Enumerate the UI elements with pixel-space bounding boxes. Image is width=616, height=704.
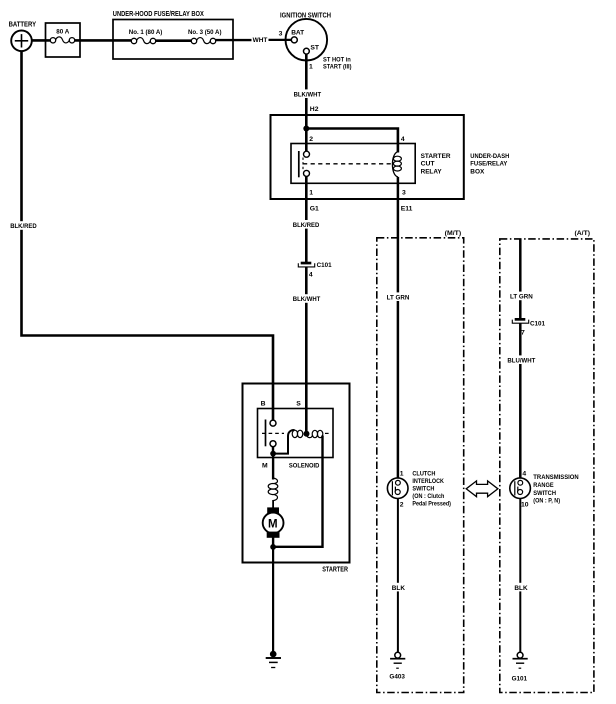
- svg-text:M: M: [262, 463, 268, 470]
- svg-text:G403: G403: [389, 674, 405, 681]
- svg-text:Pedal Pressed): Pedal Pressed): [412, 501, 451, 508]
- svg-text:UNDER-DASH: UNDER-DASH: [470, 153, 509, 160]
- svg-text:FUSE/RELAY: FUSE/RELAY: [470, 161, 507, 168]
- svg-text:No. 1 (80 A): No. 1 (80 A): [129, 29, 163, 36]
- svg-text:IGNITION SWITCH: IGNITION SWITCH: [280, 12, 331, 19]
- relay contact pin 1: [304, 170, 310, 176]
- under-dash fuse/relay box: [271, 115, 464, 199]
- relay switch bar: [298, 151, 300, 177]
- svg-text:7: 7: [521, 330, 525, 337]
- svg-text:1: 1: [309, 190, 313, 197]
- svg-text:E11: E11: [401, 206, 413, 213]
- svg-text:S: S: [296, 401, 301, 408]
- relay contact pin 2: [304, 151, 310, 157]
- svg-text:BOX: BOX: [470, 168, 485, 175]
- transmission range switch: [510, 478, 531, 499]
- label BLK/RED: [9, 221, 38, 230]
- svg-text:SWITCH: SWITCH: [412, 486, 434, 493]
- under-hood fuse/relay box: [113, 20, 233, 60]
- svg-text:C101: C101: [317, 262, 332, 269]
- svg-text:10: 10: [521, 502, 529, 509]
- wire WHT to ignition switch BAT terminal: [269, 39, 293, 41]
- wire field coil to motor: [272, 500, 274, 509]
- wire transmission switch to ground G101 (BLK): [519, 498, 521, 652]
- ground G403: [390, 652, 405, 668]
- svg-text:C101: C101: [530, 320, 545, 327]
- svg-text:RANGE: RANGE: [533, 482, 554, 489]
- wire under-hood box to WHT label: [216, 39, 252, 41]
- relay dashed actuation line: [303, 163, 392, 165]
- battery: [11, 31, 32, 52]
- svg-text:WHT: WHT: [253, 37, 269, 44]
- solenoid box: [258, 409, 334, 458]
- fuse 80 A box: [46, 23, 81, 57]
- wire motor to bottom node: [272, 538, 274, 549]
- svg-text:G1: G1: [310, 206, 319, 213]
- solenoid B terminal: [270, 420, 276, 426]
- A/T dashed box: [500, 239, 594, 693]
- svg-text:LT GRN: LT GRN: [510, 294, 533, 301]
- svg-text:SWITCH: SWITCH: [533, 490, 556, 497]
- svg-text:G101: G101: [512, 675, 528, 682]
- svg-text:STARTER: STARTER: [322, 567, 348, 574]
- ground G101: [513, 652, 528, 668]
- svg-text:BLK/WHT: BLK/WHT: [294, 91, 322, 98]
- field coil: [268, 478, 278, 501]
- wire C101 to transmission range switch (BLU/WHT): [519, 323, 522, 478]
- relay coil: [392, 152, 397, 177]
- wire M node to pull-in coil: [273, 430, 295, 453]
- svg-text:BLK: BLK: [392, 585, 405, 592]
- node H2 junction dot: [303, 126, 309, 132]
- solenoid coil loops left: [292, 430, 303, 437]
- wire relay pin 3 down (E11) to clutch interlock switch: [397, 177, 400, 479]
- svg-text:4: 4: [309, 271, 313, 278]
- svg-text:CLUTCH: CLUTCH: [412, 471, 435, 478]
- node S junction dot: [304, 431, 310, 437]
- svg-text:BAT: BAT: [291, 29, 305, 36]
- solenoid coil loops right: [307, 430, 323, 437]
- svg-text:(A/T): (A/T): [575, 230, 591, 237]
- svg-text:BLK/RED: BLK/RED: [10, 223, 37, 230]
- svg-text:BLU/WHT: BLU/WHT: [507, 357, 536, 364]
- label BLU/WHT: [506, 355, 537, 364]
- solenoid M terminal: [270, 441, 276, 447]
- svg-text:M: M: [268, 518, 278, 530]
- svg-text:START (III): START (III): [323, 63, 352, 70]
- svg-text:2: 2: [309, 136, 313, 143]
- svg-text:INTERLOCK: INTERLOCK: [412, 478, 444, 485]
- svg-text:3: 3: [279, 30, 283, 37]
- svg-text:(M/T): (M/T): [445, 230, 462, 237]
- label ST HOT in START (III): [323, 56, 352, 70]
- svg-text:BLK/RED: BLK/RED: [293, 222, 320, 229]
- svg-text:SOLENOID: SOLENOID: [289, 463, 320, 470]
- starter box: [243, 384, 350, 563]
- solenoid switch bar: [265, 420, 267, 447]
- svg-text:H2: H2: [310, 106, 319, 113]
- wire clutch switch to ground G403 (BLK): [397, 498, 399, 652]
- svg-text:4: 4: [401, 136, 405, 143]
- solenoid dashed line: [262, 432, 332, 434]
- wire relay pin 1 down to C101 (G1 / BLK/RED): [305, 177, 308, 263]
- arrow between M/T and A/T: [466, 481, 498, 497]
- label BLK: [390, 583, 406, 592]
- label BLK: [513, 583, 529, 592]
- starter cut relay: [291, 144, 415, 184]
- svg-text:TRANSMISSION: TRANSMISSION: [533, 474, 579, 481]
- svg-text:1: 1: [400, 471, 404, 478]
- clutch interlock switch: [387, 478, 408, 499]
- fuse No. 1 (80 A): [131, 38, 155, 44]
- svg-text:80 A: 80 A: [56, 29, 69, 36]
- svg-text:B: B: [261, 401, 266, 408]
- wire coil right end down and to motor bottom node: [273, 436, 322, 547]
- ground (starter): [266, 651, 281, 668]
- label BLK/RED: [291, 220, 321, 229]
- wire M node down to field coil: [272, 454, 274, 480]
- svg-text:CUT: CUT: [421, 161, 436, 168]
- wire junction to relay pin 4: [306, 129, 398, 153]
- svg-text:No. 3 (50 A): No. 3 (50 A): [188, 29, 222, 36]
- wire A/T box top to C101 (LT GRN): [519, 239, 522, 318]
- wire C101 down to solenoid S junction (BLK/WHT): [305, 267, 308, 432]
- wire between fuses: [156, 39, 192, 42]
- svg-text:3: 3: [402, 190, 406, 197]
- wire M terminal to M node: [272, 447, 274, 454]
- svg-text:BLK/WHT: BLK/WHT: [293, 296, 321, 303]
- svg-text:(ON : Clutch: (ON : Clutch: [412, 493, 444, 500]
- label STARTER CUT RELAY: [421, 153, 451, 176]
- wire battery down and across to starter B terminal (BLK/RED): [22, 51, 274, 421]
- ignition switch: [286, 19, 328, 61]
- node M junction dot: [270, 451, 276, 457]
- wire 80A box to under-hood box: [75, 39, 131, 42]
- wire junction to relay pin 2: [305, 129, 308, 153]
- node motor bottom junction dot: [270, 544, 276, 550]
- M/T dashed box: [377, 238, 464, 693]
- svg-text:1: 1: [309, 63, 313, 70]
- svg-text:BATTERY: BATTERY: [9, 22, 37, 29]
- svg-text:UNDER-HOOD FUSE/RELAY BOX: UNDER-HOOD FUSE/RELAY BOX: [113, 11, 204, 18]
- svg-text:4: 4: [522, 471, 526, 478]
- label LT GRN: [385, 292, 411, 301]
- motor M: [263, 507, 284, 537]
- svg-text:STARTER: STARTER: [421, 153, 451, 160]
- svg-text:(ON : P, N): (ON : P, N): [533, 497, 560, 504]
- svg-text:ST: ST: [310, 45, 320, 52]
- wire starter to ground: [272, 547, 274, 653]
- label TRANSMISSION RANGE SWITCH: [533, 474, 579, 504]
- svg-text:RELAY: RELAY: [421, 168, 443, 175]
- svg-text:BLK: BLK: [514, 585, 527, 592]
- svg-text:ST HOT in: ST HOT in: [323, 56, 351, 63]
- svg-text:2: 2: [400, 502, 404, 509]
- connector C101 pin 4: [298, 262, 314, 267]
- label BLK/WHT: [291, 294, 322, 303]
- wire ST terminal down to under-dash box (BLK/WHT): [305, 54, 308, 130]
- label LT GRN: [508, 292, 534, 301]
- fuse No. 3 (50 A): [191, 38, 215, 44]
- svg-text:LT GRN: LT GRN: [387, 294, 410, 301]
- label CLUTCH INTERLOCK SWITCH: [412, 471, 451, 508]
- label BLK/WHT: [292, 89, 323, 98]
- wire battery to 80A fuse box: [32, 39, 51, 42]
- label UNDER-DASH FUSE/RELAY BOX: [470, 153, 509, 176]
- connector C101 pin 7: [512, 318, 528, 323]
- fuse 80A symbol: [50, 37, 74, 43]
